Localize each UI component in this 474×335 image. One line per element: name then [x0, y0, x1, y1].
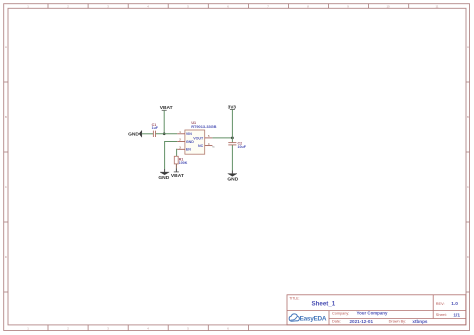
wire 3V3 vertical — [231, 109, 233, 137]
company value — [357, 311, 388, 316]
wire GND to C1 — [142, 133, 154, 135]
rev value — [451, 301, 458, 307]
wire pin3 EN down — [176, 149, 179, 156]
svg-text:xtbnps: xtbnps — [412, 319, 428, 324]
ground GND flag below pin2 — [158, 172, 169, 181]
sheet value — [453, 313, 460, 319]
svg-text:TITLE:: TITLE: — [289, 296, 299, 300]
label C1 value 1uF — [152, 126, 159, 130]
date value — [350, 319, 374, 324]
wire R1 down — [175, 164, 177, 172]
svg-text:1/1: 1/1 — [453, 313, 460, 319]
ground GND left flag — [128, 130, 142, 137]
svg-text:A: A — [5, 45, 7, 49]
title block outline — [287, 295, 466, 325]
svg-text:11: 11 — [436, 4, 439, 8]
svg-text:VBAT: VBAT — [171, 173, 184, 179]
sheet label — [436, 313, 447, 317]
label U1 — [191, 121, 196, 125]
svg-text:RT9013-33GB: RT9013-33GB — [191, 124, 216, 129]
pin 4 NC — [198, 142, 215, 149]
svg-text:VIN: VIN — [186, 132, 192, 136]
net flag VBAT bottom — [171, 172, 184, 179]
IC U1 RT9013-33GB body — [185, 130, 205, 154]
wire C1 to pin VIN — [156, 133, 178, 135]
svg-text:10: 10 — [386, 4, 390, 8]
pin 1 VIN — [177, 130, 192, 136]
svg-text:VOUT: VOUT — [193, 136, 204, 140]
ground GND flag below C2 — [227, 174, 238, 183]
pin 5 VOUT — [193, 134, 212, 140]
svg-text:D: D — [467, 255, 469, 259]
svg-text:Drawn By:: Drawn By: — [389, 320, 407, 324]
svg-text:GND: GND — [227, 177, 238, 183]
svg-text:D: D — [5, 255, 7, 259]
label R1 value 100K — [179, 161, 188, 165]
svg-text:1.0: 1.0 — [451, 301, 458, 307]
svg-text:Sheet_1: Sheet_1 — [312, 300, 336, 307]
svg-text:B: B — [467, 115, 469, 119]
svg-text:C: C — [467, 185, 469, 189]
svg-text:GND: GND — [128, 132, 139, 138]
wire C2 down — [231, 145, 233, 174]
svg-text:Sheet:: Sheet: — [436, 313, 447, 317]
net flag 3V3 top — [228, 104, 237, 109]
svg-text:Company:: Company: — [332, 311, 349, 315]
drawn by label — [389, 320, 407, 324]
title value Sheet_1 — [312, 300, 336, 307]
node junction VOUT — [231, 137, 234, 140]
logo EasyEDA — [289, 314, 327, 323]
wire junction to C2 — [231, 138, 233, 143]
svg-text:REV:: REV: — [436, 302, 445, 306]
title label TITLE: — [289, 296, 299, 300]
pin 2 GND — [177, 138, 194, 144]
wire pin2 GND left — [165, 142, 178, 173]
svg-text:GND: GND — [186, 140, 194, 144]
svg-text:10uF: 10uF — [238, 145, 247, 149]
svg-text:EasyEDA: EasyEDA — [300, 315, 327, 322]
label C2 — [238, 141, 243, 145]
label C2 value 10uF — [238, 145, 247, 149]
capacitor C1 — [153, 131, 155, 137]
title block dividers — [287, 295, 466, 325]
label C1 — [152, 123, 157, 127]
pin 3 EN — [177, 146, 191, 152]
svg-text:B: B — [5, 115, 7, 119]
svg-text:2021-12-01: 2021-12-01 — [350, 319, 374, 324]
svg-text:Your Company: Your Company — [357, 311, 388, 316]
svg-text:A: A — [467, 45, 469, 49]
wire VBAT vertical — [163, 110, 165, 134]
company label — [332, 311, 349, 315]
svg-text:Date:: Date: — [332, 320, 341, 324]
wire VOUT to junction — [212, 137, 232, 139]
svg-text:GND: GND — [158, 175, 169, 181]
drawn by value — [412, 319, 428, 324]
node junction VIN — [163, 132, 166, 135]
date label — [332, 320, 341, 324]
label U1 value RT9013-33GB — [191, 124, 216, 129]
svg-text:EN: EN — [186, 148, 191, 152]
svg-text:C: C — [5, 185, 7, 189]
label R1 — [179, 157, 184, 161]
capacitor C2 — [228, 143, 236, 145]
svg-text:3V3: 3V3 — [228, 104, 237, 109]
svg-text:100K: 100K — [179, 161, 188, 165]
svg-text:1uF: 1uF — [152, 126, 159, 130]
svg-text:NC: NC — [198, 144, 204, 148]
resistor R1 — [174, 156, 178, 164]
net flag VBAT top — [160, 105, 173, 111]
rev label — [436, 302, 445, 306]
